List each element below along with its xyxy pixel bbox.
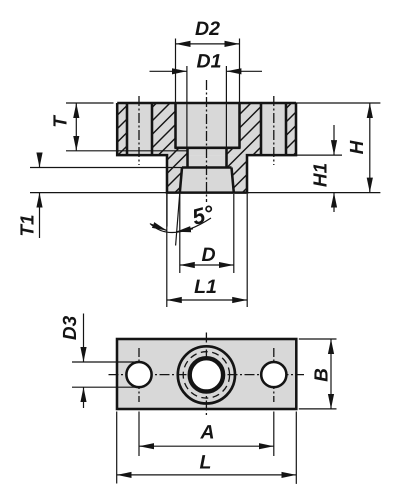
- svg-text:B: B: [312, 368, 333, 382]
- dimension T1: [18, 153, 183, 238]
- cone top edge: [182, 166, 232, 169]
- right hole center line: [273, 348, 275, 402]
- left mounting hole D3: [126, 362, 151, 387]
- left hole center line: [138, 348, 140, 402]
- hatch right mid region: [227, 103, 262, 193]
- boss fill: [167, 155, 247, 193]
- svg-text:D1: D1: [197, 51, 222, 73]
- 5 degree angle dimension: [150, 193, 216, 246]
- cone left wall: [180, 168, 182, 193]
- dimension B: [299, 339, 337, 409]
- plan horizontal center line: [109, 374, 305, 376]
- dimension D2: [176, 18, 240, 103]
- svg-text:D: D: [201, 244, 215, 266]
- dimension T: [51, 103, 188, 151]
- dimension A: [139, 412, 274, 457]
- svg-text:A: A: [199, 422, 214, 444]
- svg-text:L1: L1: [194, 276, 217, 298]
- dimension D: [180, 194, 234, 273]
- right mounting hole: [261, 362, 286, 387]
- svg-text:D3: D3: [60, 315, 81, 340]
- left hole center line: [138, 96, 140, 165]
- dimension D3: [60, 314, 139, 409]
- right hole center line: [273, 96, 275, 165]
- counterbore D2 walls and bottom: [174, 103, 240, 148]
- svg-text:H1: H1: [311, 163, 332, 187]
- svg-text:T1: T1: [18, 214, 39, 236]
- main center line: [206, 80, 208, 202]
- hatch left mid region: [152, 103, 188, 193]
- svg-text:D2: D2: [195, 18, 220, 40]
- svg-text:L: L: [200, 452, 212, 474]
- dimension H: [296, 103, 380, 193]
- svg-text:H: H: [347, 139, 368, 154]
- left mounting hole edges: [127, 103, 152, 155]
- svg-text:T: T: [51, 115, 72, 128]
- plan vertical center line: [205, 333, 207, 417]
- dimension L: [117, 412, 297, 484]
- bore D1 walls: [188, 148, 227, 168]
- dimension D1: [150, 51, 263, 148]
- part outline section: [117, 103, 296, 193]
- cone right wall: [232, 168, 234, 193]
- flange body fill: [117, 103, 296, 155]
- hatch right outer strip: [286, 103, 296, 155]
- dimension L1: [167, 194, 247, 307]
- dimension H1: [296, 125, 342, 212]
- hatch left outer strip: [117, 103, 127, 155]
- plate fill and outline: [117, 339, 296, 409]
- right mounting hole edges: [261, 103, 286, 155]
- central hole circles: [178, 346, 235, 403]
- long bottom extension line (shared T1 / H): [30, 192, 380, 194]
